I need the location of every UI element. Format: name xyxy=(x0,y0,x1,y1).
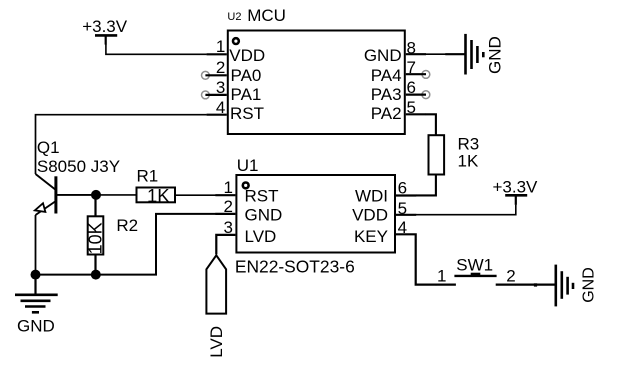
svg-text:GND: GND xyxy=(245,206,283,225)
svg-text:2: 2 xyxy=(224,197,233,216)
svg-text:LVD: LVD xyxy=(207,326,226,358)
svg-text:6: 6 xyxy=(398,178,407,197)
svg-text:U2: U2 xyxy=(227,11,241,23)
svg-text:PA4: PA4 xyxy=(371,66,402,85)
svg-text:S8050 J3Y: S8050 J3Y xyxy=(37,157,120,176)
svg-text:10K: 10K xyxy=(85,222,105,254)
svg-text:RST: RST xyxy=(245,187,279,206)
svg-text:+3.3V: +3.3V xyxy=(82,17,128,36)
svg-text:WDI: WDI xyxy=(355,187,388,206)
svg-text:6: 6 xyxy=(407,78,416,97)
svg-text:RST: RST xyxy=(230,104,264,123)
svg-text:PA0: PA0 xyxy=(231,66,262,85)
svg-text:1: 1 xyxy=(437,267,446,286)
svg-text:5: 5 xyxy=(398,199,407,218)
svg-text:4: 4 xyxy=(398,218,407,237)
svg-text:7: 7 xyxy=(407,58,416,77)
svg-text:PA3: PA3 xyxy=(371,85,402,104)
svg-text:2: 2 xyxy=(216,58,225,77)
svg-text:U1: U1 xyxy=(237,156,259,175)
svg-text:PA1: PA1 xyxy=(231,85,262,104)
svg-text:EN22-SOT23-6: EN22-SOT23-6 xyxy=(235,256,355,276)
svg-text:4: 4 xyxy=(216,98,225,117)
svg-text:GND: GND xyxy=(364,46,402,65)
svg-text:8: 8 xyxy=(407,38,416,57)
svg-text:5: 5 xyxy=(407,98,416,117)
svg-text:PA2: PA2 xyxy=(371,104,402,123)
svg-text:3: 3 xyxy=(224,218,233,237)
svg-text:3: 3 xyxy=(216,78,225,97)
svg-text:2: 2 xyxy=(506,267,515,286)
svg-text:1K: 1K xyxy=(458,152,479,171)
svg-text:GND: GND xyxy=(580,267,597,303)
svg-text:1K: 1K xyxy=(147,185,170,206)
svg-text:VDD: VDD xyxy=(229,46,265,65)
svg-text:GND: GND xyxy=(486,36,505,74)
svg-text:KEY: KEY xyxy=(354,227,388,246)
svg-text:GND: GND xyxy=(17,317,55,336)
svg-text:MCU: MCU xyxy=(247,6,286,25)
svg-text:SW1: SW1 xyxy=(456,256,493,275)
svg-text:Q1: Q1 xyxy=(37,138,60,157)
svg-text:VDD: VDD xyxy=(352,206,388,225)
svg-text:LVD: LVD xyxy=(245,227,277,246)
svg-text:+3.3V: +3.3V xyxy=(493,177,539,196)
svg-text:R1: R1 xyxy=(137,167,159,186)
svg-text:R2: R2 xyxy=(116,216,138,235)
svg-text:1: 1 xyxy=(216,37,225,56)
svg-text:1: 1 xyxy=(224,178,233,197)
